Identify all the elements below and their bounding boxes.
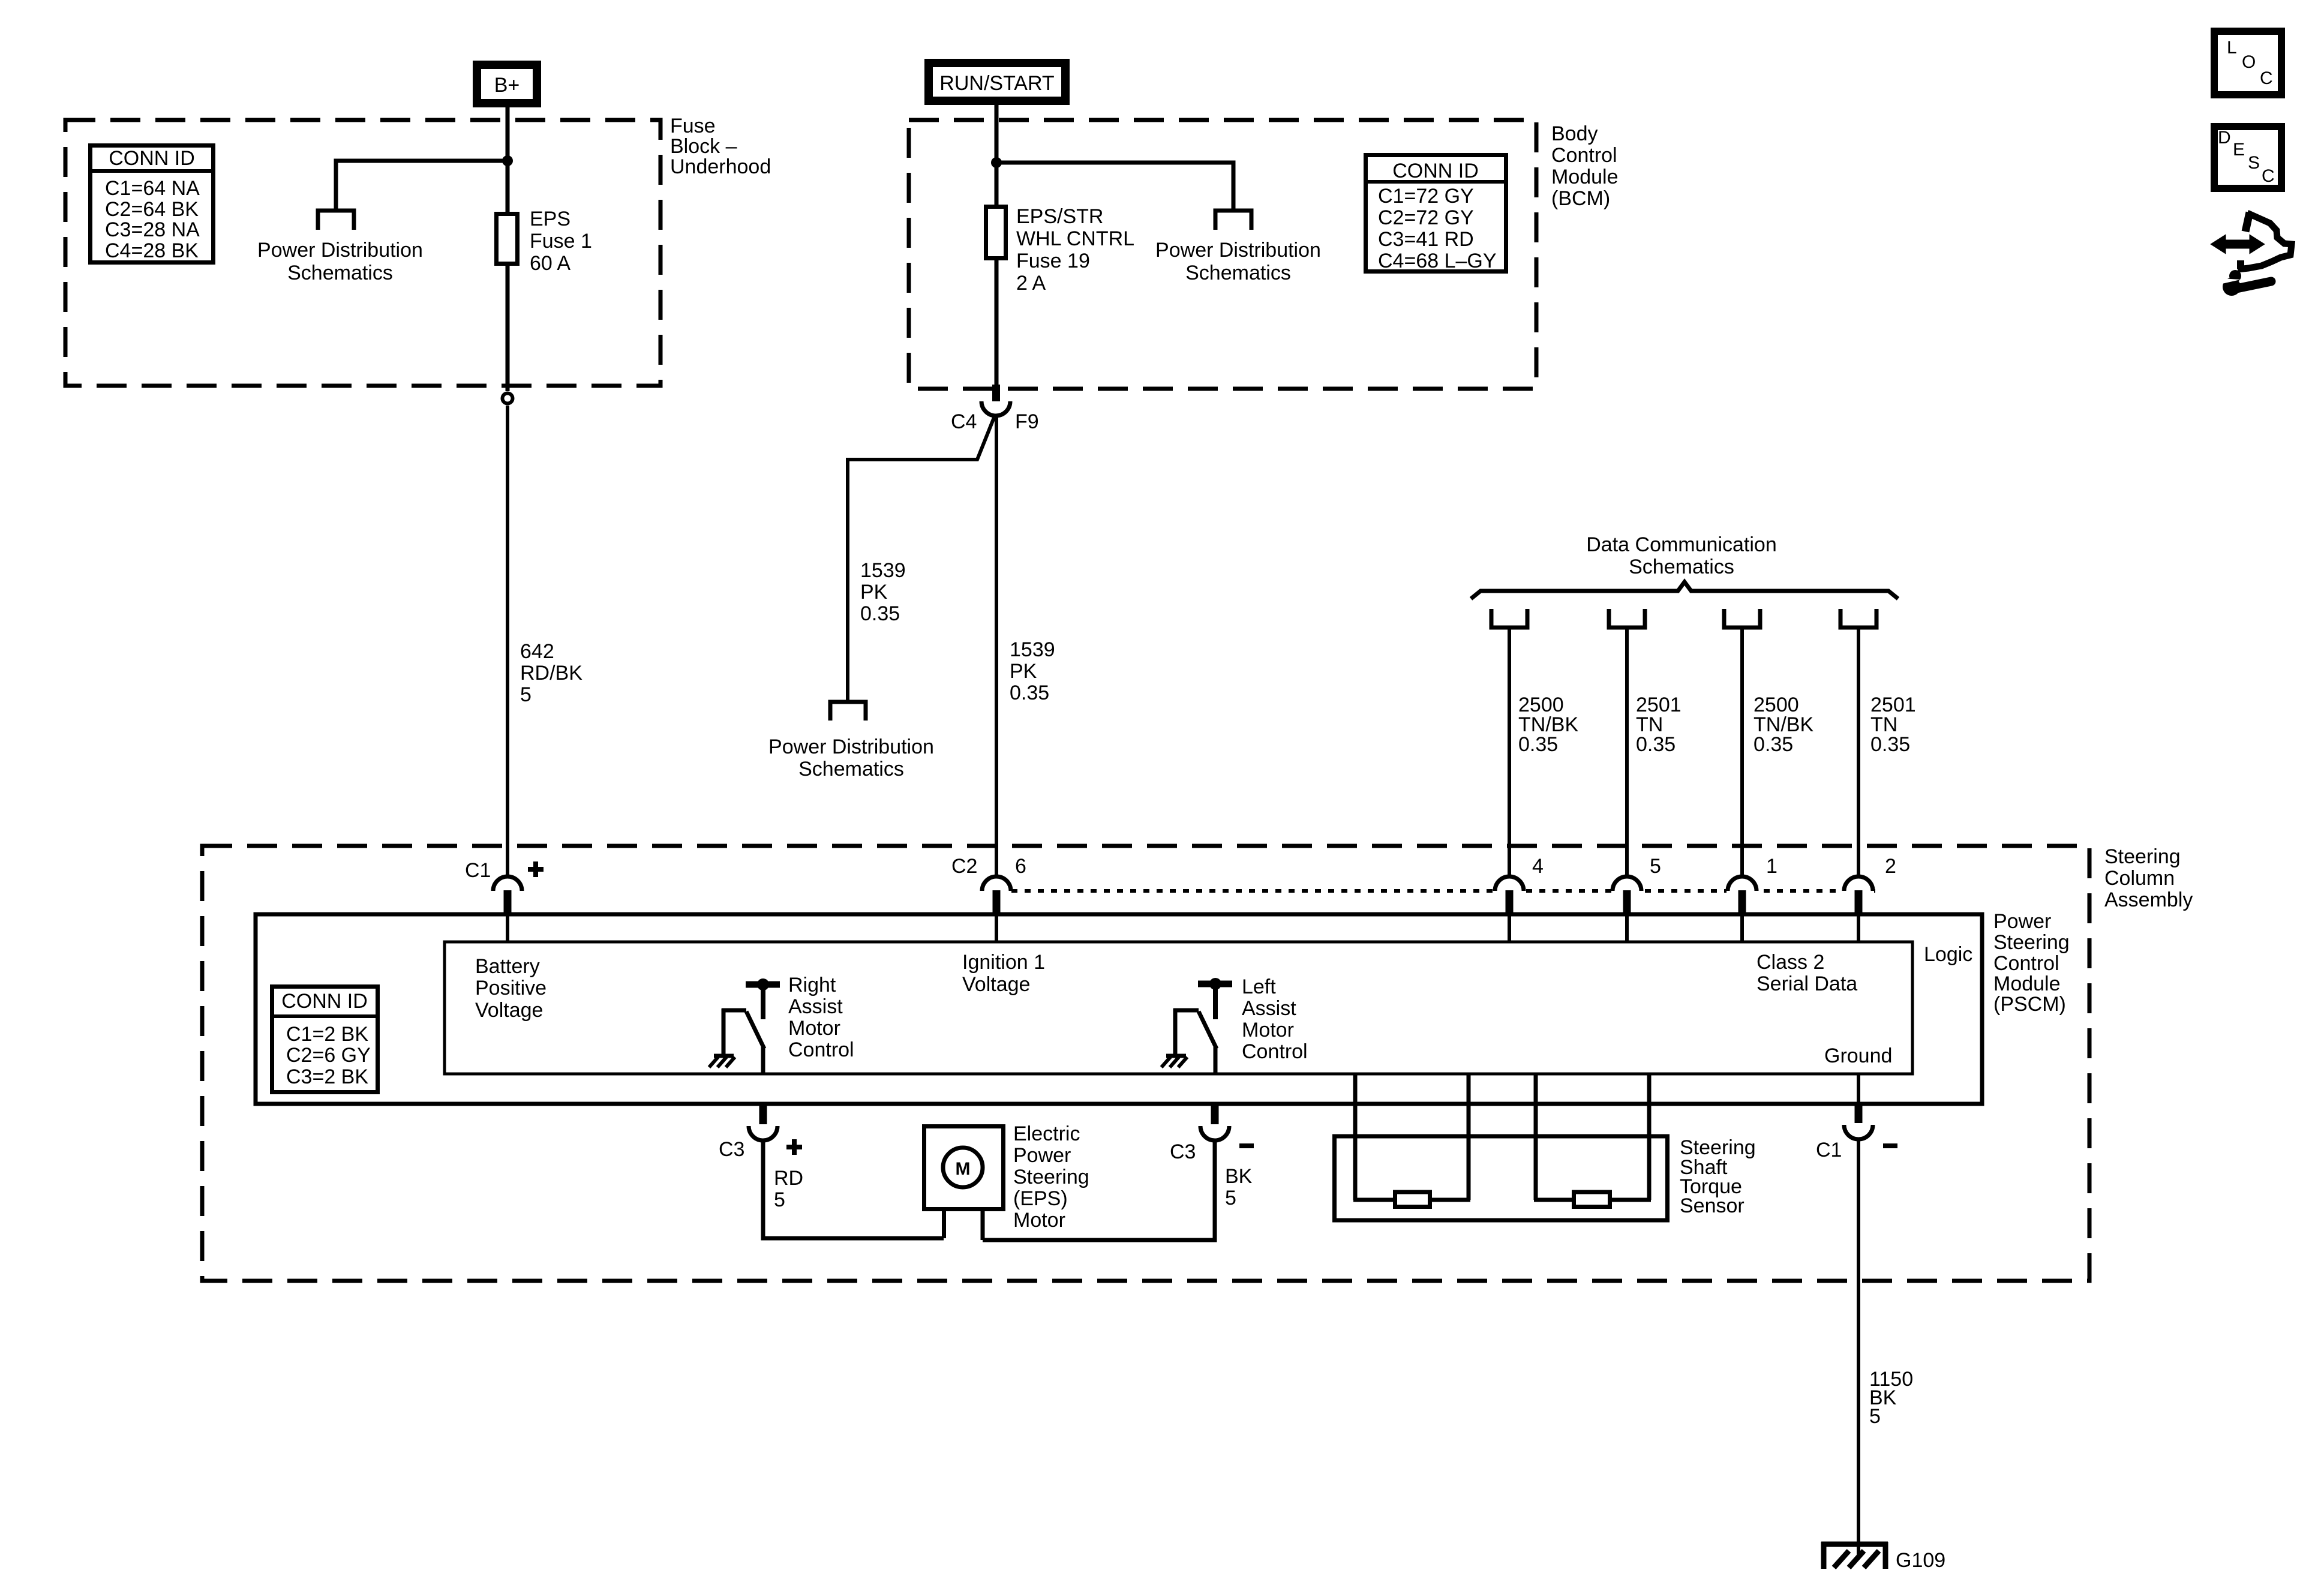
svg-text:CONN ID: CONN ID: [281, 990, 368, 1013]
connector C4 F9 cup: [981, 401, 1010, 416]
svg-text:C2=72 GY: C2=72 GY: [1378, 206, 1474, 229]
wire label 642 RD/BK 5: [520, 640, 582, 706]
svg-text:Right: Right: [788, 974, 836, 996]
svg-text:C3: C3: [719, 1138, 744, 1161]
wire RUN/START feed down: [995, 105, 999, 386]
svg-text:M: M: [956, 1159, 971, 1179]
value label EPS Fuse 1 60 A: [530, 208, 592, 275]
svg-text:Battery: Battery: [475, 955, 540, 978]
svg-text:60 A: 60 A: [530, 252, 571, 275]
label Fuse Block - Underhood: [670, 115, 771, 178]
junction node on RUN/START feed: [991, 157, 1002, 168]
wire 1150 BK 5 to G109: [1857, 1138, 1860, 1557]
svg-text:E: E: [2233, 140, 2245, 160]
svg-text:O: O: [2242, 52, 2256, 72]
label Class 2 Serial Data: [1756, 951, 1857, 995]
wire branch to power distribution (BCM): [996, 163, 1233, 209]
svg-text:RD: RD: [774, 1167, 803, 1190]
off-page connector data wire 1: [1491, 609, 1527, 628]
wire RD 5 from C3+ to motor: [763, 1139, 944, 1238]
wire label 1539 PK 0.35 (branch): [860, 559, 906, 625]
svg-text:C4=28 BK: C4=28 BK: [105, 239, 199, 262]
svg-text:5: 5: [1650, 855, 1661, 878]
svg-text:Schematics: Schematics: [287, 262, 393, 284]
schematic navigation icon (arrow and wrench): [2212, 212, 2292, 296]
svg-text:642: 642: [520, 640, 554, 663]
svg-text:CONN ID: CONN ID: [109, 147, 195, 170]
svg-text:Schematics: Schematics: [1629, 556, 1734, 578]
svg-text:Control: Control: [1551, 144, 1617, 167]
svg-text:S: S: [2248, 153, 2260, 173]
svg-text:Class 2: Class 2: [1756, 951, 1824, 974]
svg-text:5: 5: [1225, 1187, 1236, 1209]
label Steering Shaft Torque Sensor: [1680, 1136, 1756, 1217]
svg-text:RD/BK: RD/BK: [520, 662, 582, 685]
svg-text:Fuse: Fuse: [670, 115, 716, 137]
svg-text:Motor: Motor: [788, 1017, 840, 1040]
DESC icon box: [2214, 127, 2281, 188]
off-page connector data wire 2: [1609, 609, 1645, 628]
wire label BK 5: [1225, 1165, 1253, 1209]
fuse EPS/STR WHL CNTRL Fuse 19 2 A: [986, 207, 1006, 259]
label Right Assist Motor Control: [788, 974, 854, 1061]
svg-text:Schematics: Schematics: [1185, 262, 1291, 284]
connector C4 F9 stub: [992, 385, 1000, 401]
svg-text:C1=2 BK: C1=2 BK: [286, 1023, 368, 1046]
label Battery Positive Voltage: [475, 955, 547, 1022]
svg-text:BK: BK: [1225, 1165, 1253, 1188]
BCM dashed box: [909, 120, 1536, 389]
wire label RD 5: [774, 1167, 803, 1211]
svg-text:PK: PK: [860, 581, 888, 604]
svg-text:2 A: 2 A: [1016, 272, 1046, 295]
svg-text:Left: Left: [1242, 975, 1276, 998]
label Steering Column Assembly: [2104, 845, 2193, 911]
svg-text:6: 6: [1015, 855, 1026, 878]
connector pin 5 entry dome: [1613, 876, 1641, 891]
svg-text:C: C: [2262, 166, 2275, 186]
off-page connector data wire 4: [1840, 609, 1876, 628]
steering shaft torque sensor wires: [1353, 1074, 1651, 1200]
svg-text:0.35: 0.35: [1636, 733, 1676, 756]
svg-text:4: 4: [1532, 855, 1544, 878]
wire label 1539 PK 0.35 (right): [1010, 638, 1055, 704]
wire 2500 TN/BK 0.35 (pin1): [1740, 628, 1744, 877]
fuse EPS Fuse 1 60 A: [497, 214, 518, 264]
LOC icon box: [2214, 31, 2281, 95]
label Body Control Module (BCM): [1551, 122, 1619, 210]
polarity label -: [1239, 1143, 1254, 1148]
CONN ID table (BCM): [1364, 155, 1508, 273]
svg-text:C2=6 GY: C2=6 GY: [286, 1044, 371, 1067]
svg-text:Module: Module: [1551, 166, 1619, 188]
connector C2 6 entry dome: [982, 876, 1011, 891]
svg-text:1: 1: [1766, 855, 1777, 878]
svg-text:Voltage: Voltage: [475, 999, 543, 1022]
svg-text:Power Distribution: Power Distribution: [257, 239, 423, 262]
svg-text:C1: C1: [1816, 1139, 1842, 1161]
svg-text:0.35: 0.35: [860, 602, 900, 625]
svg-text:C3: C3: [1170, 1140, 1196, 1163]
svg-text:(EPS): (EPS): [1013, 1187, 1068, 1210]
svg-text:0.35: 0.35: [1870, 733, 1910, 756]
wire 2500 TN/BK 0.35 (pin4): [1508, 628, 1511, 877]
right assist motor control switch: [709, 978, 780, 1075]
svg-text:C4: C4: [951, 410, 977, 433]
svg-text:Assembly: Assembly: [2104, 888, 2193, 911]
svg-text:EPS: EPS: [530, 208, 571, 230]
svg-text:Schematics: Schematics: [798, 758, 904, 781]
svg-text:Underhood: Underhood: [670, 155, 771, 178]
svg-text:2: 2: [1885, 855, 1896, 878]
off-page connector to Power Distribution Schematics (branch): [830, 702, 866, 721]
label Power Distribution Schematics (BCM): [1155, 239, 1321, 284]
svg-text:Motor: Motor: [1242, 1019, 1294, 1041]
svg-text:Motor: Motor: [1013, 1209, 1065, 1232]
svg-text:Ignition 1: Ignition 1: [962, 951, 1045, 974]
off-page connector to Power Distribution Schematics (BCM): [1215, 211, 1251, 230]
PSCM box: [256, 914, 1982, 1104]
ground G109: [1821, 1542, 1888, 1569]
svg-text:Assist: Assist: [788, 995, 843, 1018]
svg-text:C2=64 BK: C2=64 BK: [105, 198, 199, 221]
wire 642 RD/BK 5 down to PSCM C1: [506, 406, 509, 877]
svg-text:D: D: [2218, 128, 2231, 148]
CONN ID table (PSCM): [270, 987, 380, 1092]
svg-text:C: C: [2260, 68, 2273, 88]
B+ power feed box: [477, 65, 537, 103]
ground pin wire from logic box: [1857, 1074, 1860, 1104]
polarity label - (ground): [1883, 1143, 1897, 1148]
connector pin 4 entry dome: [1495, 876, 1524, 891]
svg-text:EPS/STR: EPS/STR: [1016, 205, 1103, 228]
svg-text:5: 5: [520, 683, 532, 706]
label Ignition 1 Voltage: [962, 951, 1045, 996]
svg-text:1539: 1539: [1010, 638, 1055, 661]
value label EPS/STR WHL CNTRL Fuse 19 2 A: [1016, 205, 1134, 295]
svg-text:Steering: Steering: [1013, 1166, 1089, 1188]
svg-text:Fuse 1: Fuse 1: [530, 230, 592, 253]
svg-text:C3=2 BK: C3=2 BK: [286, 1065, 368, 1088]
svg-text:C4=68 L–GY: C4=68 L–GY: [1378, 250, 1497, 272]
wire branch from C4 to power distribution schematics: [848, 418, 994, 700]
wire label 1150 BK 5: [1869, 1368, 1913, 1428]
label Power Distribution Schematics (branch): [768, 736, 934, 781]
svg-text:Ground: Ground: [1824, 1044, 1892, 1067]
connector pin 1 entry dome: [1728, 876, 1756, 891]
svg-text:0.35: 0.35: [1010, 682, 1049, 704]
steering column assembly dashed box: [202, 846, 2089, 1281]
svg-text:Electric: Electric: [1013, 1122, 1080, 1145]
polarity label +: [528, 861, 544, 877]
svg-text:C1=72 GY: C1=72 GY: [1378, 185, 1474, 208]
svg-text:Sensor: Sensor: [1680, 1194, 1744, 1217]
svg-text:Column: Column: [2104, 867, 2175, 890]
CONN ID table (fuse block): [90, 146, 214, 263]
wire label 2501 TN 0.35 (pin5): [1636, 694, 1682, 756]
connector C1 + entry dome: [493, 876, 522, 891]
wire label 2500 TN/BK 0.35 (pin1): [1753, 694, 1813, 756]
svg-text:Power Distribution: Power Distribution: [768, 736, 934, 758]
polarity label +: [786, 1139, 802, 1155]
svg-text:C3=28 NA: C3=28 NA: [105, 218, 200, 241]
svg-text:Power Distribution: Power Distribution: [1155, 239, 1321, 262]
svg-text:RUN/START: RUN/START: [939, 72, 1054, 95]
svg-text:C3=41 RD: C3=41 RD: [1378, 228, 1474, 251]
wire BK 5 from C3- to motor: [983, 1139, 1215, 1240]
left assist motor control switch: [1161, 978, 1232, 1075]
label Power Distribution Schematics (left): [257, 239, 423, 284]
label Electric Power Steering (EPS) Motor: [1013, 1122, 1089, 1232]
svg-text:PK: PK: [1010, 660, 1037, 683]
svg-text:Module: Module: [1993, 972, 2061, 995]
svg-text:Body: Body: [1551, 122, 1598, 145]
svg-text:G109: G109: [1896, 1549, 1945, 1572]
svg-text:F9: F9: [1015, 410, 1039, 433]
svg-text:(BCM): (BCM): [1551, 187, 1610, 210]
svg-text:Control: Control: [1242, 1040, 1308, 1063]
label Power Steering Control Module (PSCM): [1993, 910, 2070, 1016]
wire B+ feed down from B+ box through fuse block: [506, 107, 510, 391]
svg-text:Control: Control: [1993, 952, 2059, 975]
svg-text:5: 5: [774, 1188, 785, 1211]
svg-text:C1=64 NA: C1=64 NA: [105, 177, 200, 200]
svg-text:Control: Control: [788, 1038, 854, 1061]
pass-through grommet ring on B+ wire: [503, 394, 513, 404]
svg-text:C1: C1: [465, 859, 491, 882]
svg-text:Steering: Steering: [2104, 845, 2181, 868]
svg-text:WHL CNTRL: WHL CNTRL: [1016, 227, 1134, 250]
off-page connector to Power Distribution Schematics (left): [318, 211, 354, 230]
wire label 2501 TN 0.35 (pin2): [1870, 694, 1916, 756]
svg-text:Assist: Assist: [1242, 997, 1296, 1020]
svg-text:CONN ID: CONN ID: [1392, 160, 1479, 182]
label Data Communication Schematics: [1586, 533, 1776, 578]
svg-text:B+: B+: [494, 74, 520, 97]
RUN/START power feed box: [929, 63, 1065, 101]
svg-text:0.35: 0.35: [1753, 733, 1793, 756]
svg-text:Serial Data: Serial Data: [1756, 972, 1857, 995]
fine dotted connector line at PSCM top: [1011, 889, 1879, 893]
svg-text:C2: C2: [951, 855, 977, 878]
label Left Assist Motor Control: [1242, 975, 1308, 1063]
fuse block underhood dashed box: [65, 120, 660, 386]
off-page connector data wire 3: [1724, 609, 1760, 628]
svg-text:Positive: Positive: [475, 977, 547, 999]
logic box: [445, 942, 1912, 1074]
svg-text:Power: Power: [1993, 910, 2051, 933]
svg-text:5: 5: [1869, 1405, 1881, 1428]
connector C3 + exit cup: [759, 1104, 767, 1124]
svg-text:0.35: 0.35: [1518, 733, 1558, 756]
svg-text:Fuse 19: Fuse 19: [1016, 250, 1090, 272]
svg-text:1539: 1539: [860, 559, 906, 582]
torque sensor resistor R1: [1395, 1192, 1430, 1207]
connector C3 - exit cup: [1211, 1104, 1219, 1124]
svg-text:Power: Power: [1013, 1144, 1071, 1167]
wire 2501 TN 0.35 (pin5): [1625, 628, 1629, 877]
wire label 2500 TN/BK 0.35 (pin4): [1518, 694, 1578, 756]
svg-text:Data Communication: Data Communication: [1586, 533, 1776, 556]
wire branch to power distribution: [336, 161, 508, 209]
connector pin 2 entry dome: [1844, 876, 1873, 891]
svg-text:(PSCM): (PSCM): [1993, 993, 2066, 1016]
svg-text:L: L: [2227, 38, 2237, 58]
wire 1539 PK 0.35 from C4 to PSCM C2: [995, 415, 998, 877]
svg-text:Voltage: Voltage: [962, 973, 1030, 996]
steering shaft torque sensor box: [1335, 1136, 1668, 1220]
junction node on B+ feed: [502, 155, 513, 166]
svg-text:Block –: Block –: [670, 135, 737, 158]
wire 2501 TN 0.35 (pin2): [1857, 628, 1860, 877]
svg-text:Logic: Logic: [1924, 943, 1972, 966]
white gaps under entry domes: [1494, 886, 1874, 896]
connector C1 - exit cup (ground): [1855, 1104, 1863, 1123]
torque sensor resistor R2: [1574, 1192, 1610, 1207]
EPS motor M1: [924, 1127, 1004, 1241]
brace: [1471, 582, 1898, 599]
svg-text:Steering: Steering: [1993, 931, 2070, 954]
